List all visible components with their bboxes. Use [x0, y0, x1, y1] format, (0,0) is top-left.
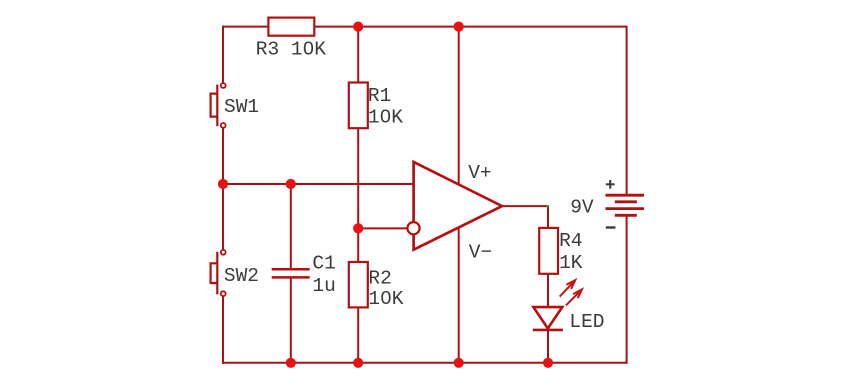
wire right rail lower segment: [626, 215, 628, 363]
node junction top rail / V+: [454, 22, 464, 32]
node output post: [547, 205, 549, 207]
svg-text:R3 10K: R3 10K: [256, 39, 327, 61]
wire bottom rail: [222, 362, 628, 364]
wire top rail: [223, 26, 627, 28]
svg-text:C1: C1: [312, 252, 335, 274]
svg-text:V−: V−: [469, 241, 492, 263]
resistor R4: [539, 228, 558, 274]
wire mid horizontal (non-inverting input net): [222, 183, 415, 185]
svg-text:1u: 1u: [312, 275, 335, 297]
resistor R2: [349, 262, 368, 307]
wire R1/R2 column: [357, 27, 359, 363]
svg-text:SW1: SW1: [224, 96, 259, 118]
wire right rail upper segment: [626, 26, 628, 196]
svg-text:9V: 9V: [570, 197, 594, 219]
LED D1: [533, 280, 582, 330]
node junction top rail / R1: [353, 22, 363, 32]
node junction bottom rail / R2: [353, 358, 363, 368]
svg-text:R2: R2: [368, 267, 391, 289]
wire inverting input: [358, 227, 407, 229]
node junction left rail / mid wire: [218, 179, 228, 189]
wire op-amp output to R4: [502, 206, 548, 229]
node junction bottom rail / LED: [543, 358, 553, 368]
node junction bottom rail / C1: [286, 358, 296, 368]
node junction mid wire / C1: [286, 179, 296, 189]
node junction bottom rail / V-: [454, 358, 464, 368]
switch SW1: [211, 83, 226, 128]
capacitor C1: [272, 269, 310, 277]
wire left rail upper segment: [222, 26, 224, 84]
resistor R1: [349, 83, 368, 129]
resistor R3: [268, 18, 314, 36]
node junction inverting input / R2: [353, 223, 363, 233]
wire V- supply: [458, 226, 460, 364]
switch SW2: [211, 250, 226, 296]
svg-text:V+: V+: [468, 162, 491, 184]
wire C1 column upper: [290, 183, 292, 269]
svg-text:R4: R4: [559, 230, 582, 252]
battery minus sign: [606, 226, 616, 228]
wire LED to bottom rail: [547, 330, 549, 364]
svg-text:R1: R1: [368, 85, 391, 107]
wire left rail middle segment: [222, 128, 224, 250]
wire left rail lower segment: [222, 296, 224, 364]
battery plus sign: [606, 180, 615, 189]
op-amp U1: [407, 162, 502, 250]
wire V+ supply: [458, 26, 460, 186]
wire R4 to LED: [547, 273, 549, 308]
svg-text:LED: LED: [569, 311, 604, 333]
wire C1 column lower: [290, 277, 292, 363]
battery B1 9V: [606, 195, 645, 215]
svg-text:SW2: SW2: [224, 265, 259, 287]
svg-text:1K: 1K: [559, 252, 583, 274]
